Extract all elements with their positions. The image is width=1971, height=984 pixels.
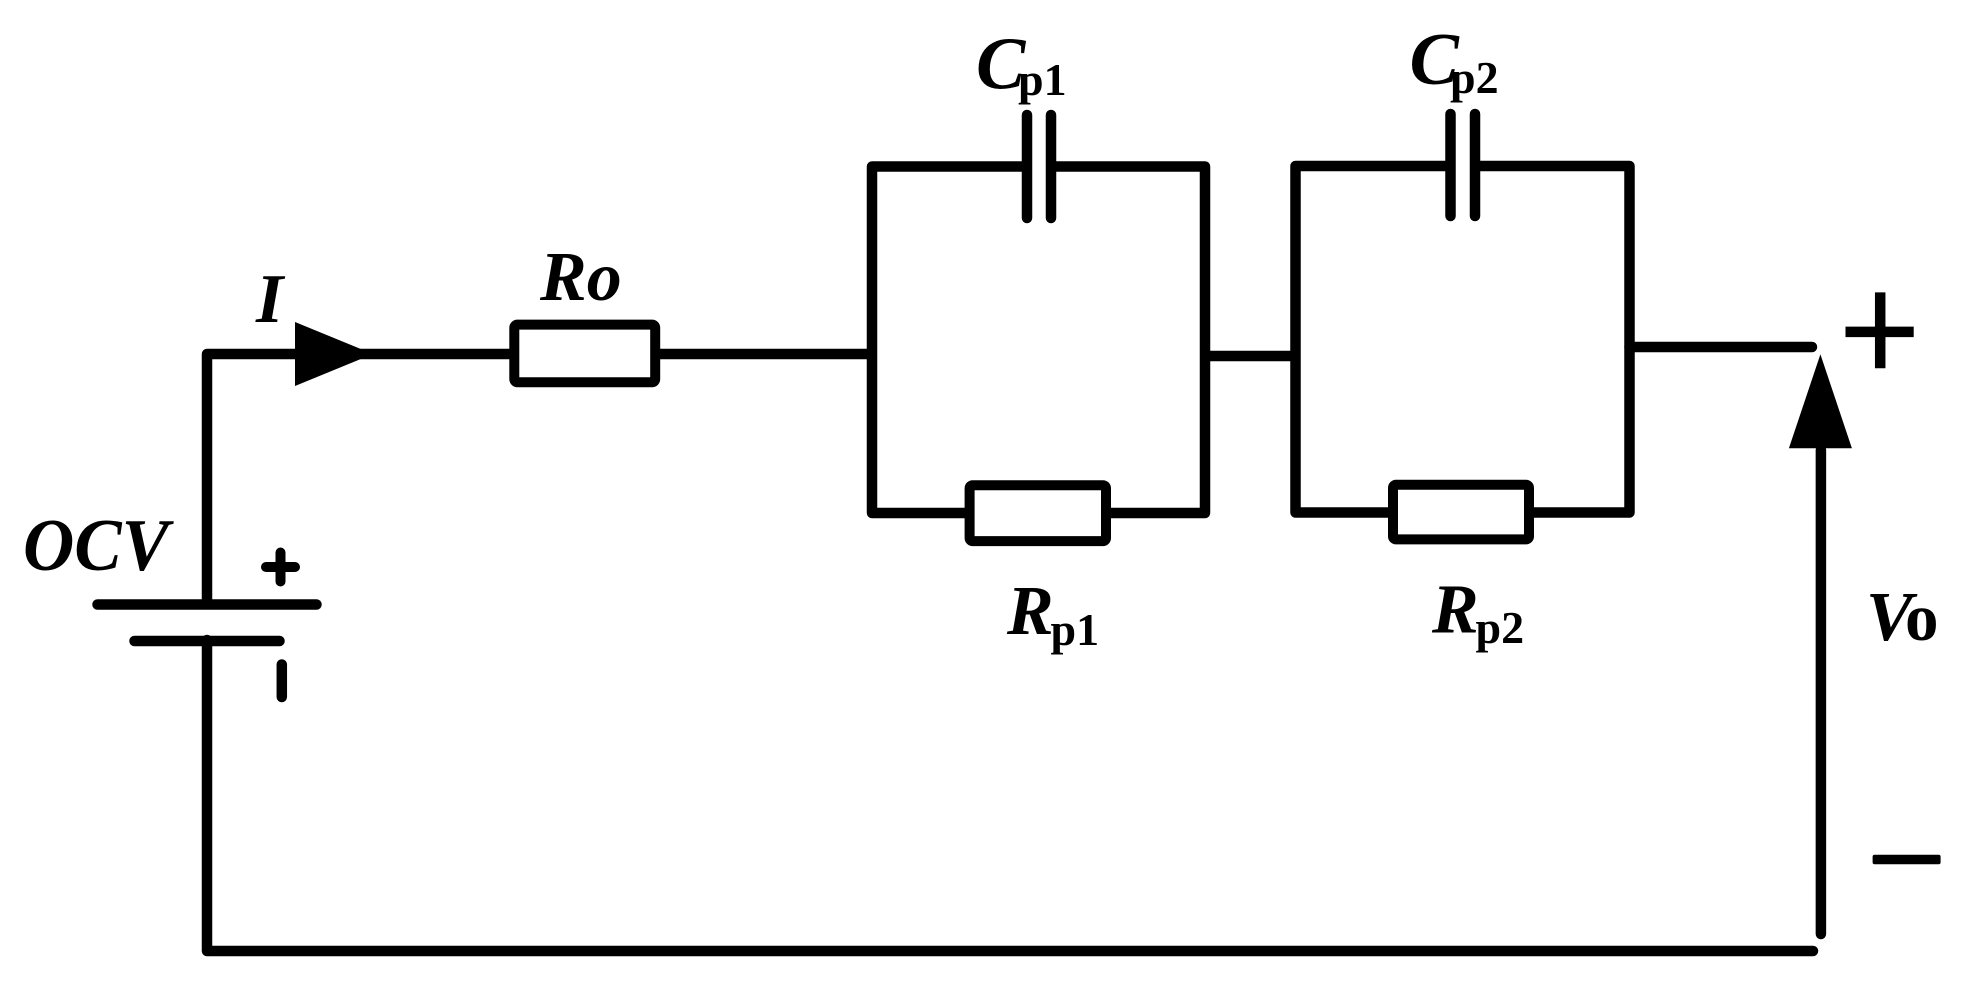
wire: battery bottom to bottom rail bbox=[207, 640, 1813, 951]
battery OCV top plate bbox=[98, 599, 317, 610]
wire: Ro to RC1 bbox=[660, 349, 872, 360]
svg-text:R: R bbox=[1006, 573, 1054, 650]
battery plus sign bbox=[266, 553, 295, 582]
current arrow bbox=[295, 322, 373, 386]
output plus sign bbox=[1846, 292, 1914, 368]
battery minus dash (vertical) bbox=[277, 665, 288, 698]
RC2 box top-right segment + right edge bbox=[1473, 166, 1630, 513]
svg-text:I: I bbox=[255, 261, 286, 338]
svg-text:Ro: Ro bbox=[539, 239, 622, 316]
battery OCV bottom plate bbox=[135, 636, 280, 647]
output minus sign bbox=[1873, 855, 1941, 865]
svg-text:p2: p2 bbox=[1450, 52, 1499, 103]
svg-text:OCV: OCV bbox=[23, 505, 174, 587]
svg-text:R: R bbox=[1431, 572, 1479, 649]
wire: RC2 to output node bbox=[1630, 342, 1813, 353]
RC1 box top-right segment + right edge bbox=[1049, 167, 1205, 514]
capacitor Cp1 left plate bbox=[1022, 115, 1033, 218]
svg-text:p1: p1 bbox=[1051, 604, 1100, 655]
svg-text:p2: p2 bbox=[1476, 602, 1525, 653]
capacitor Cp2 right plate bbox=[1470, 114, 1481, 216]
svg-text:p1: p1 bbox=[1018, 54, 1067, 105]
svg-text:o: o bbox=[1905, 581, 1939, 655]
resistor Ro bbox=[514, 325, 655, 383]
resistor Rp1 bbox=[970, 485, 1106, 541]
wire: RC1 to RC2 bbox=[1205, 351, 1296, 362]
capacitor Cp1 right plate bbox=[1046, 115, 1057, 218]
wire: left loop top (battery to top wire to Ro) bbox=[207, 354, 510, 601]
resistor Rp2 bbox=[1393, 485, 1529, 540]
V0 arrow head bbox=[1789, 354, 1852, 448]
RC2 box left+top-left segment bbox=[1296, 166, 1453, 513]
RC1 box left+top-left segment bbox=[872, 167, 1029, 514]
V0 arrow shaft bbox=[1816, 450, 1827, 934]
capacitor Cp2 left plate bbox=[1445, 114, 1456, 216]
